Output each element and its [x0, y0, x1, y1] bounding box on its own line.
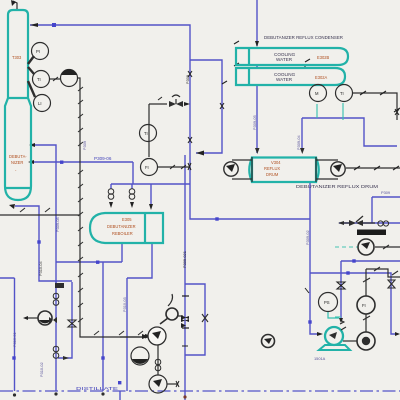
svg-text:FI: FI [362, 303, 366, 308]
svg-text:P309: P309 [185, 75, 190, 84]
svg-text:LI: LI [38, 101, 42, 106]
svg-text:M: M [315, 91, 319, 96]
svg-text:E305: E305 [122, 217, 132, 222]
svg-text:DISTILLATE: DISTILLATE [76, 386, 118, 391]
svg-text:TI: TI [340, 91, 344, 96]
svg-text:NIZER: NIZER [11, 160, 23, 165]
svg-text:E302A: E302A [315, 75, 328, 80]
svg-text:P310-01: P310-01 [12, 332, 17, 347]
svg-text:DEBUTANIZER REFLUX CONDENSER: DEBUTANIZER REFLUX CONDENSER [264, 35, 344, 40]
svg-text:E302B: E302B [317, 55, 330, 60]
svg-text:TI: TI [144, 131, 148, 136]
svg-text:1501A: 1501A [314, 356, 326, 361]
svg-text:PS: PS [324, 300, 330, 305]
svg-text:FI: FI [145, 165, 149, 170]
svg-text:V304: V304 [271, 160, 281, 165]
svg-text:DEBUTANIZER: DEBUTANIZER [107, 224, 136, 229]
svg-text:P309-06: P309-06 [94, 156, 112, 161]
svg-text:DRUM: DRUM [266, 172, 279, 177]
svg-text:WATER: WATER [276, 57, 293, 62]
svg-text:P310-02: P310-02 [39, 362, 44, 377]
svg-text:WATER: WATER [276, 77, 293, 82]
svg-text:REFLUX: REFLUX [264, 166, 280, 171]
svg-text:DEBUTA-: DEBUTA- [9, 154, 27, 159]
svg-text:P309-04: P309-04 [296, 134, 301, 150]
svg-text:P309-02: P309-02 [305, 230, 310, 245]
svg-text:REBOILER: REBOILER [112, 231, 133, 236]
svg-text:P309: P309 [381, 190, 390, 195]
svg-text:T303: T303 [12, 55, 22, 60]
svg-text:TI: TI [37, 77, 41, 82]
svg-text:P310-04: P310-04 [38, 260, 43, 276]
svg-text:P309-021: P309-021 [182, 251, 187, 268]
svg-text:P309: P309 [82, 141, 87, 150]
svg-text:P310-03: P310-03 [122, 297, 127, 312]
svg-text:DEBUTANIZER REFLUX DRUM: DEBUTANIZER REFLUX DRUM [296, 184, 378, 189]
svg-text:P309-08: P309-08 [55, 217, 60, 232]
svg-text:PI: PI [36, 49, 40, 54]
svg-text:P309-05: P309-05 [252, 115, 257, 130]
